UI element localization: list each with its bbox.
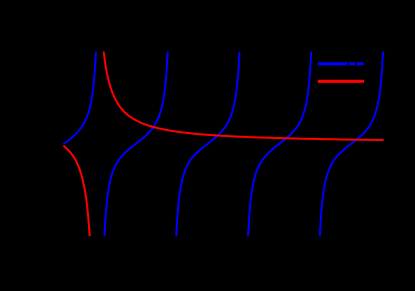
blue curve branch 3 (176, 52, 239, 237)
red curve right branch (104, 52, 384, 141)
red curve left arm (63, 146, 89, 236)
legend red solid sample (318, 80, 364, 83)
blue curve branch 2 (104, 52, 167, 237)
legend blue dashed sample (318, 62, 348, 65)
blue curve branch 4 (248, 52, 311, 237)
blue curve branch 1 (63, 52, 96, 145)
blue curve branch 5 (320, 52, 383, 237)
